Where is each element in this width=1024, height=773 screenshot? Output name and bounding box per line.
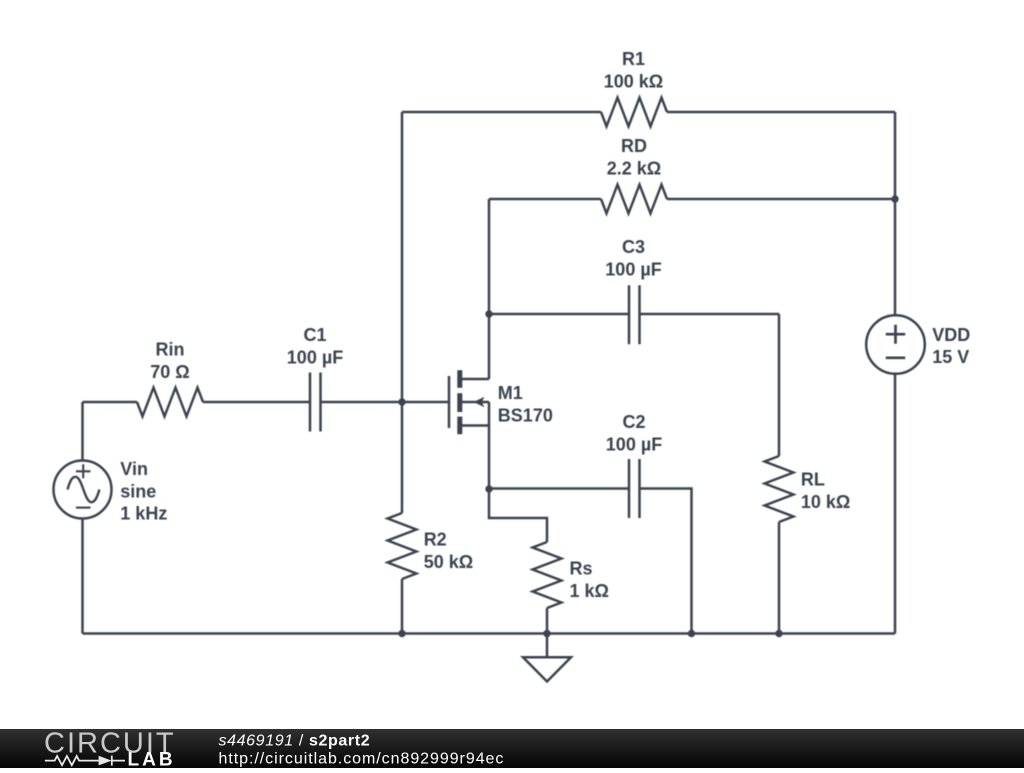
svg-text:RD: RD (621, 136, 647, 156)
junction: gate node (398, 398, 405, 405)
wire: body-source column (488, 402, 491, 489)
wire: Vin bottom lead to bottom rail (81, 519, 84, 634)
logo resistor-diode glyph (45, 756, 125, 766)
VDD minus sign (886, 356, 905, 359)
svg-text:M1: M1 (498, 383, 523, 403)
wire: C3 rail right segment to RL column (640, 313, 780, 316)
Vin sine waveform (68, 477, 100, 502)
wire: input rail from Rin to C1 (203, 401, 310, 404)
svg-text:R2: R2 (424, 530, 447, 550)
svg-text:100 µF: 100 µF (606, 435, 662, 455)
junction: C2 drop bottom (688, 630, 695, 637)
wire: bottom rail (83, 632, 896, 635)
svg-text:C1: C1 (303, 325, 326, 345)
svg-text:Rin: Rin (156, 340, 185, 360)
ground symbol triangle (523, 657, 571, 681)
wire: RL column from C3 rail down to RL (778, 314, 781, 456)
Vin minus sign (76, 507, 91, 509)
wire: input rail from C1 through gate node to MOSFET gate (321, 401, 450, 404)
voltage source VDD circle (866, 315, 925, 374)
VDD plus sign (886, 325, 905, 344)
wire: source node jog down-right to Rs (489, 489, 547, 542)
junction: gate column bottom (398, 630, 405, 637)
transistor M1 channel segment bottom (457, 417, 462, 435)
resistor Rs (533, 542, 562, 608)
svg-text:100 kΩ: 100 kΩ (604, 71, 663, 91)
junction: RL bottom (775, 630, 782, 637)
capacitor C3 (629, 285, 640, 344)
voltage source Vin vertical top lead (81, 402, 84, 461)
wire: right column x=895 from R1 down to RD node (894, 112, 897, 199)
svg-text:sine: sine (120, 481, 156, 501)
wire: R1 top loop left vertical (gate node column x=402) (401, 112, 404, 513)
svg-text:70 Ω: 70 Ω (150, 362, 189, 382)
Vin plus sign (76, 464, 91, 478)
junction: drain / C3 tee (485, 310, 492, 317)
svg-text:Rs: Rs (570, 559, 593, 579)
svg-text:10 kΩ: 10 kΩ (801, 492, 850, 512)
svg-text:VDD: VDD (932, 325, 970, 345)
wire: C3 rail from drain node to left plate (489, 313, 629, 316)
junction: ground node (543, 630, 550, 637)
capacitor C1 (310, 373, 321, 432)
junction: RD / VDD column (891, 195, 898, 202)
svg-text:100 µF: 100 µF (605, 260, 661, 280)
svg-text:LAB: LAB (128, 750, 176, 769)
svg-text:s4469191 / s2part2: s4469191 / s2part2 (219, 732, 371, 749)
svg-text:RL: RL (801, 470, 825, 490)
resistor Rin (137, 388, 203, 417)
svg-text:2.2 kΩ: 2.2 kΩ (607, 159, 661, 179)
transistor M1 body arrow (474, 397, 485, 407)
wire: right column from RD node down to VDD source (894, 199, 897, 315)
ground stub (546, 634, 549, 658)
wire: R1 top rail right segment (667, 111, 895, 114)
wire: VDD bottom to bottom rail (894, 374, 897, 634)
junction: source / C2 tee (485, 485, 492, 492)
capacitor C2 (629, 459, 640, 518)
wire: R1 top rail left segment (402, 111, 601, 114)
wire: drain column from RD corner down to MOSFET drain (488, 199, 491, 379)
wire: input rail from Vin corner to Rin (83, 401, 138, 404)
svg-text:C3: C3 (622, 237, 645, 257)
svg-text:1 kHz: 1 kHz (120, 504, 167, 524)
svg-text:R1: R1 (622, 49, 645, 69)
wire: RD rail left segment from drain column (489, 198, 601, 201)
transistor M1 drain lead (462, 378, 489, 381)
resistor RL (765, 456, 794, 522)
svg-text:1 kΩ: 1 kΩ (570, 581, 609, 601)
svg-text:50 kΩ: 50 kΩ (424, 552, 473, 572)
svg-text:Vin: Vin (120, 459, 148, 479)
transistor M1 gate bar (448, 376, 451, 428)
wire: gate column below R2 to bottom rail (401, 579, 404, 634)
transistor M1 source lead (462, 424, 489, 427)
voltage source Vin circle (54, 461, 112, 519)
svg-text:http://circuitlab.com/cn892999: http://circuitlab.com/cn892999r94ec (219, 750, 505, 767)
svg-text:15 V: 15 V (932, 347, 969, 367)
wire: RL bottom to bottom rail (778, 522, 781, 634)
wire: C2 rail right segment and drop to bottom rail (640, 489, 692, 634)
transistor M1 channel segment middle (457, 393, 462, 412)
svg-text:100 µF: 100 µF (287, 347, 343, 367)
wire: RD rail right segment to VDD column (667, 198, 895, 201)
svg-text:C2: C2 (622, 412, 645, 432)
transistor M1 body lead (462, 401, 489, 404)
wire: Rs bottom to bottom rail (546, 608, 549, 634)
wire: C2 rail from source node to left plate (489, 487, 629, 490)
svg-text:BS170: BS170 (498, 406, 553, 426)
resistor R1 (601, 98, 667, 127)
resistor RD (601, 185, 667, 214)
transistor M1 channel segment top (457, 370, 462, 388)
resistor R2 (388, 513, 417, 579)
